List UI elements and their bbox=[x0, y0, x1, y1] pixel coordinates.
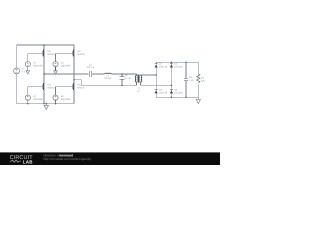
inductor L1 bbox=[105, 72, 112, 75]
svg-text:1 µF: 1 µF bbox=[189, 79, 194, 82]
svg-text:NMOS: NMOS bbox=[77, 86, 85, 89]
svg-text:1N4148: 1N4148 bbox=[159, 92, 168, 95]
voltage source V3 bbox=[53, 62, 58, 67]
svg-text:5 V: 5 V bbox=[22, 70, 26, 73]
svg-text:LAB: LAB bbox=[23, 159, 33, 164]
svg-text:SQUARE: SQUARE bbox=[33, 98, 44, 101]
wire right leg bbox=[73, 45, 75, 104]
transistor M1 bbox=[40, 49, 44, 56]
wire V5 to bottom rail bbox=[55, 100, 57, 103]
svg-text:http://circuitlab.com/c629r2vg: http://circuitlab.com/c629r2vgamby bbox=[43, 157, 91, 161]
svg-text:SQUARE: SQUARE bbox=[61, 98, 72, 101]
footer bar bbox=[0, 152, 220, 165]
wire V4 to bottom rail bbox=[27, 100, 29, 103]
capacitor C1 bbox=[89, 71, 91, 77]
resistor R1 bbox=[197, 62, 200, 97]
svg-text:SQUARE: SQUARE bbox=[33, 64, 44, 67]
wire V5 gate wire bbox=[56, 87, 73, 95]
transistor M3 bbox=[40, 83, 44, 90]
transformer T1 bbox=[135, 74, 142, 85]
svg-text:1N4148: 1N4148 bbox=[159, 66, 168, 69]
wire V1 branch bbox=[16, 45, 18, 104]
diode D3 bbox=[155, 90, 158, 94]
wire secondary bottom bbox=[141, 84, 172, 86]
ground main bbox=[44, 104, 48, 110]
wire V4 gate wire bbox=[28, 87, 42, 95]
svg-text:500 pF: 500 pF bbox=[87, 66, 95, 69]
wire C1 to L1 bbox=[92, 73, 105, 75]
ground under V3 bbox=[54, 67, 58, 74]
svg-text:NMOS: NMOS bbox=[47, 86, 55, 89]
svg-text:SQUARE: SQUARE bbox=[61, 64, 72, 67]
voltage source V1 bbox=[14, 68, 20, 74]
svg-text:50 µH: 50 µH bbox=[104, 77, 111, 80]
voltage source V2 bbox=[25, 62, 30, 67]
wire rectifier branch 1 bbox=[155, 62, 157, 97]
wire V2 gate wire bbox=[28, 54, 42, 62]
svg-text:1N4148: 1N4148 bbox=[174, 92, 183, 95]
diode D4 bbox=[170, 90, 173, 94]
svg-text:NMOS: NMOS bbox=[47, 53, 55, 56]
capacitor C3 bbox=[184, 62, 188, 97]
voltage source V5 bbox=[53, 95, 58, 100]
voltage source V4 bbox=[25, 95, 30, 100]
svg-text:17 nF: 17 nF bbox=[125, 77, 132, 80]
wire secondary top bbox=[141, 74, 157, 76]
diode D1 bbox=[155, 64, 158, 68]
wire rectifier branch 2 bbox=[170, 62, 172, 97]
ground output bbox=[196, 97, 200, 103]
capacitor C2 bbox=[120, 74, 125, 85]
wire rectifier bottom rail bbox=[156, 96, 198, 98]
node junction dots bbox=[27, 44, 187, 104]
svg-text:50Ω: 50Ω bbox=[201, 79, 206, 82]
footer logo zigzag bbox=[10, 160, 21, 162]
wire V3 gate wire bbox=[56, 54, 73, 62]
wire left leg bbox=[43, 45, 45, 104]
transistor M4 bbox=[70, 83, 74, 90]
svg-text:NMOS: NMOS bbox=[77, 53, 85, 56]
wire tank main bbox=[44, 73, 89, 75]
diode D2 bbox=[170, 64, 173, 68]
wire L1 to T1 bbox=[112, 73, 137, 75]
svg-text:1N4148: 1N4148 bbox=[174, 66, 183, 69]
wire rectifier top rail bbox=[156, 61, 198, 63]
transistor M2 bbox=[70, 49, 74, 56]
wire top rail bbox=[17, 44, 74, 46]
ground under V2 bbox=[26, 67, 30, 74]
wire bottom rail bbox=[17, 103, 74, 105]
wire primary return bbox=[74, 80, 136, 86]
